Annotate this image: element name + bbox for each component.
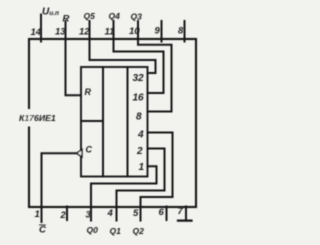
svg-text:Q2: Q2 — [133, 226, 145, 236]
pin 4 wire from output 2 — [117, 149, 165, 221]
IC package outline DD1 — [29, 39, 196, 207]
svg-text:2: 2 — [60, 210, 67, 221]
svg-text:Q5: Q5 — [84, 11, 96, 21]
svg-text:4: 4 — [137, 130, 144, 141]
svg-text:7: 7 — [178, 206, 184, 217]
svg-text:1: 1 — [35, 209, 40, 220]
svg-text:14: 14 — [31, 27, 42, 38]
ground symbol — [178, 220, 192, 222]
pin 13 wire to R input — [66, 21, 82, 95]
svg-text:4: 4 — [107, 208, 114, 219]
pin 9 stub — [161, 21, 163, 42]
svg-text:R: R — [63, 14, 70, 25]
svg-text:8: 8 — [178, 26, 184, 37]
svg-text:R: R — [85, 87, 92, 97]
svg-text:8: 8 — [136, 112, 142, 123]
svg-text:9: 9 — [155, 26, 161, 37]
svg-text:5: 5 — [133, 208, 139, 219]
pin 1 wire to C input — [42, 153, 77, 222]
pin 8 stub — [184, 21, 186, 42]
svg-text:10: 10 — [129, 26, 140, 37]
gap in package edge behind chip name — [25, 109, 33, 127]
svg-text:Q0: Q0 — [87, 225, 99, 235]
svg-text:6: 6 — [159, 207, 165, 218]
pin 3 wire from output 1 — [91, 166, 157, 220]
pin 11 wire to output 16 — [114, 21, 164, 93]
svg-text:Q4: Q4 — [109, 11, 121, 21]
block divider left column — [102, 67, 104, 177]
pin 10 wire to output 8 — [138, 21, 172, 112]
pin 14 stub — [40, 15, 42, 42]
svg-text:2: 2 — [136, 146, 143, 157]
pin 5 wire from output 4 — [141, 133, 173, 221]
block divider R/C cells — [81, 120, 103, 122]
svg-text:16: 16 — [133, 93, 145, 104]
svg-text:32: 32 — [133, 73, 145, 84]
dynamic input triangle at C — [77, 149, 82, 157]
svg-text:3: 3 — [86, 210, 92, 221]
svg-text:1: 1 — [139, 162, 145, 173]
pin 6 stub — [166, 207, 168, 221]
counter block body — [81, 67, 148, 177]
svg-text:13: 13 — [55, 27, 66, 38]
svg-text:C: C — [86, 145, 93, 155]
svg-text:Q3: Q3 — [131, 12, 143, 22]
svg-text:К176ИЕ1: К176ИЕ1 — [19, 113, 56, 123]
pin 7 stub to ground — [185, 207, 187, 221]
svg-text:Q1: Q1 — [110, 226, 122, 236]
svg-text:12: 12 — [79, 27, 90, 38]
pin 2 stub — [66, 207, 68, 221]
svg-text:11: 11 — [105, 27, 115, 38]
block divider output column — [127, 67, 129, 177]
svg-text:C: C — [39, 225, 46, 236]
pin 12 wire to output 32 — [90, 21, 156, 73]
